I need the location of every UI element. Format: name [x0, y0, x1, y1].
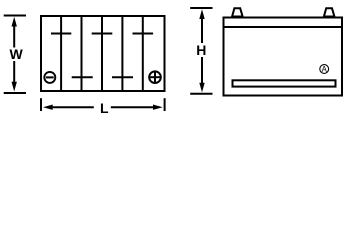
dimension H extension bar top — [190, 7, 212, 9]
dimension W lower arrow — [12, 61, 17, 92]
svg-text:H: H — [196, 42, 206, 58]
hold-down ledge slot — [233, 80, 336, 86]
dimension W upper arrow — [12, 17, 17, 48]
cell divider 2 — [81, 16, 83, 91]
positive terminal symbol — [149, 71, 161, 83]
dimension L left arrow — [43, 105, 94, 110]
dimension L extension bar right — [164, 98, 166, 111]
cell connector cross top 2 — [92, 33, 113, 35]
cell connector cross top 3 — [133, 33, 154, 35]
terminal post left — [232, 8, 243, 16]
dimension W extension bar bottom — [4, 92, 26, 94]
cell divider 4 — [121, 16, 123, 91]
dimension W extension bar top — [4, 15, 26, 17]
svg-text:L: L — [100, 100, 109, 116]
dimension H extension bar bottom — [190, 93, 212, 95]
cell connector cross top 1 — [51, 33, 71, 35]
dimension L extension bar left — [40, 98, 42, 111]
dimension H lower arrow — [199, 57, 204, 92]
cell divider 5 — [142, 16, 144, 91]
circled A marker — [320, 65, 329, 74]
battery side view outline — [224, 18, 343, 96]
negative terminal symbol — [44, 72, 55, 83]
battery lid seam line — [225, 26, 342, 28]
dimension H upper arrow — [199, 9, 204, 43]
dimension L right arrow — [111, 105, 163, 110]
cell connector cross bottom 2 — [112, 76, 133, 78]
svg-text:A: A — [322, 65, 328, 74]
svg-text:W: W — [9, 46, 23, 62]
cell divider 1 — [60, 16, 62, 91]
battery top view outline — [41, 16, 165, 91]
cell connector cross bottom 1 — [72, 76, 93, 78]
cell divider 3 — [101, 16, 103, 91]
terminal post right — [324, 8, 335, 16]
